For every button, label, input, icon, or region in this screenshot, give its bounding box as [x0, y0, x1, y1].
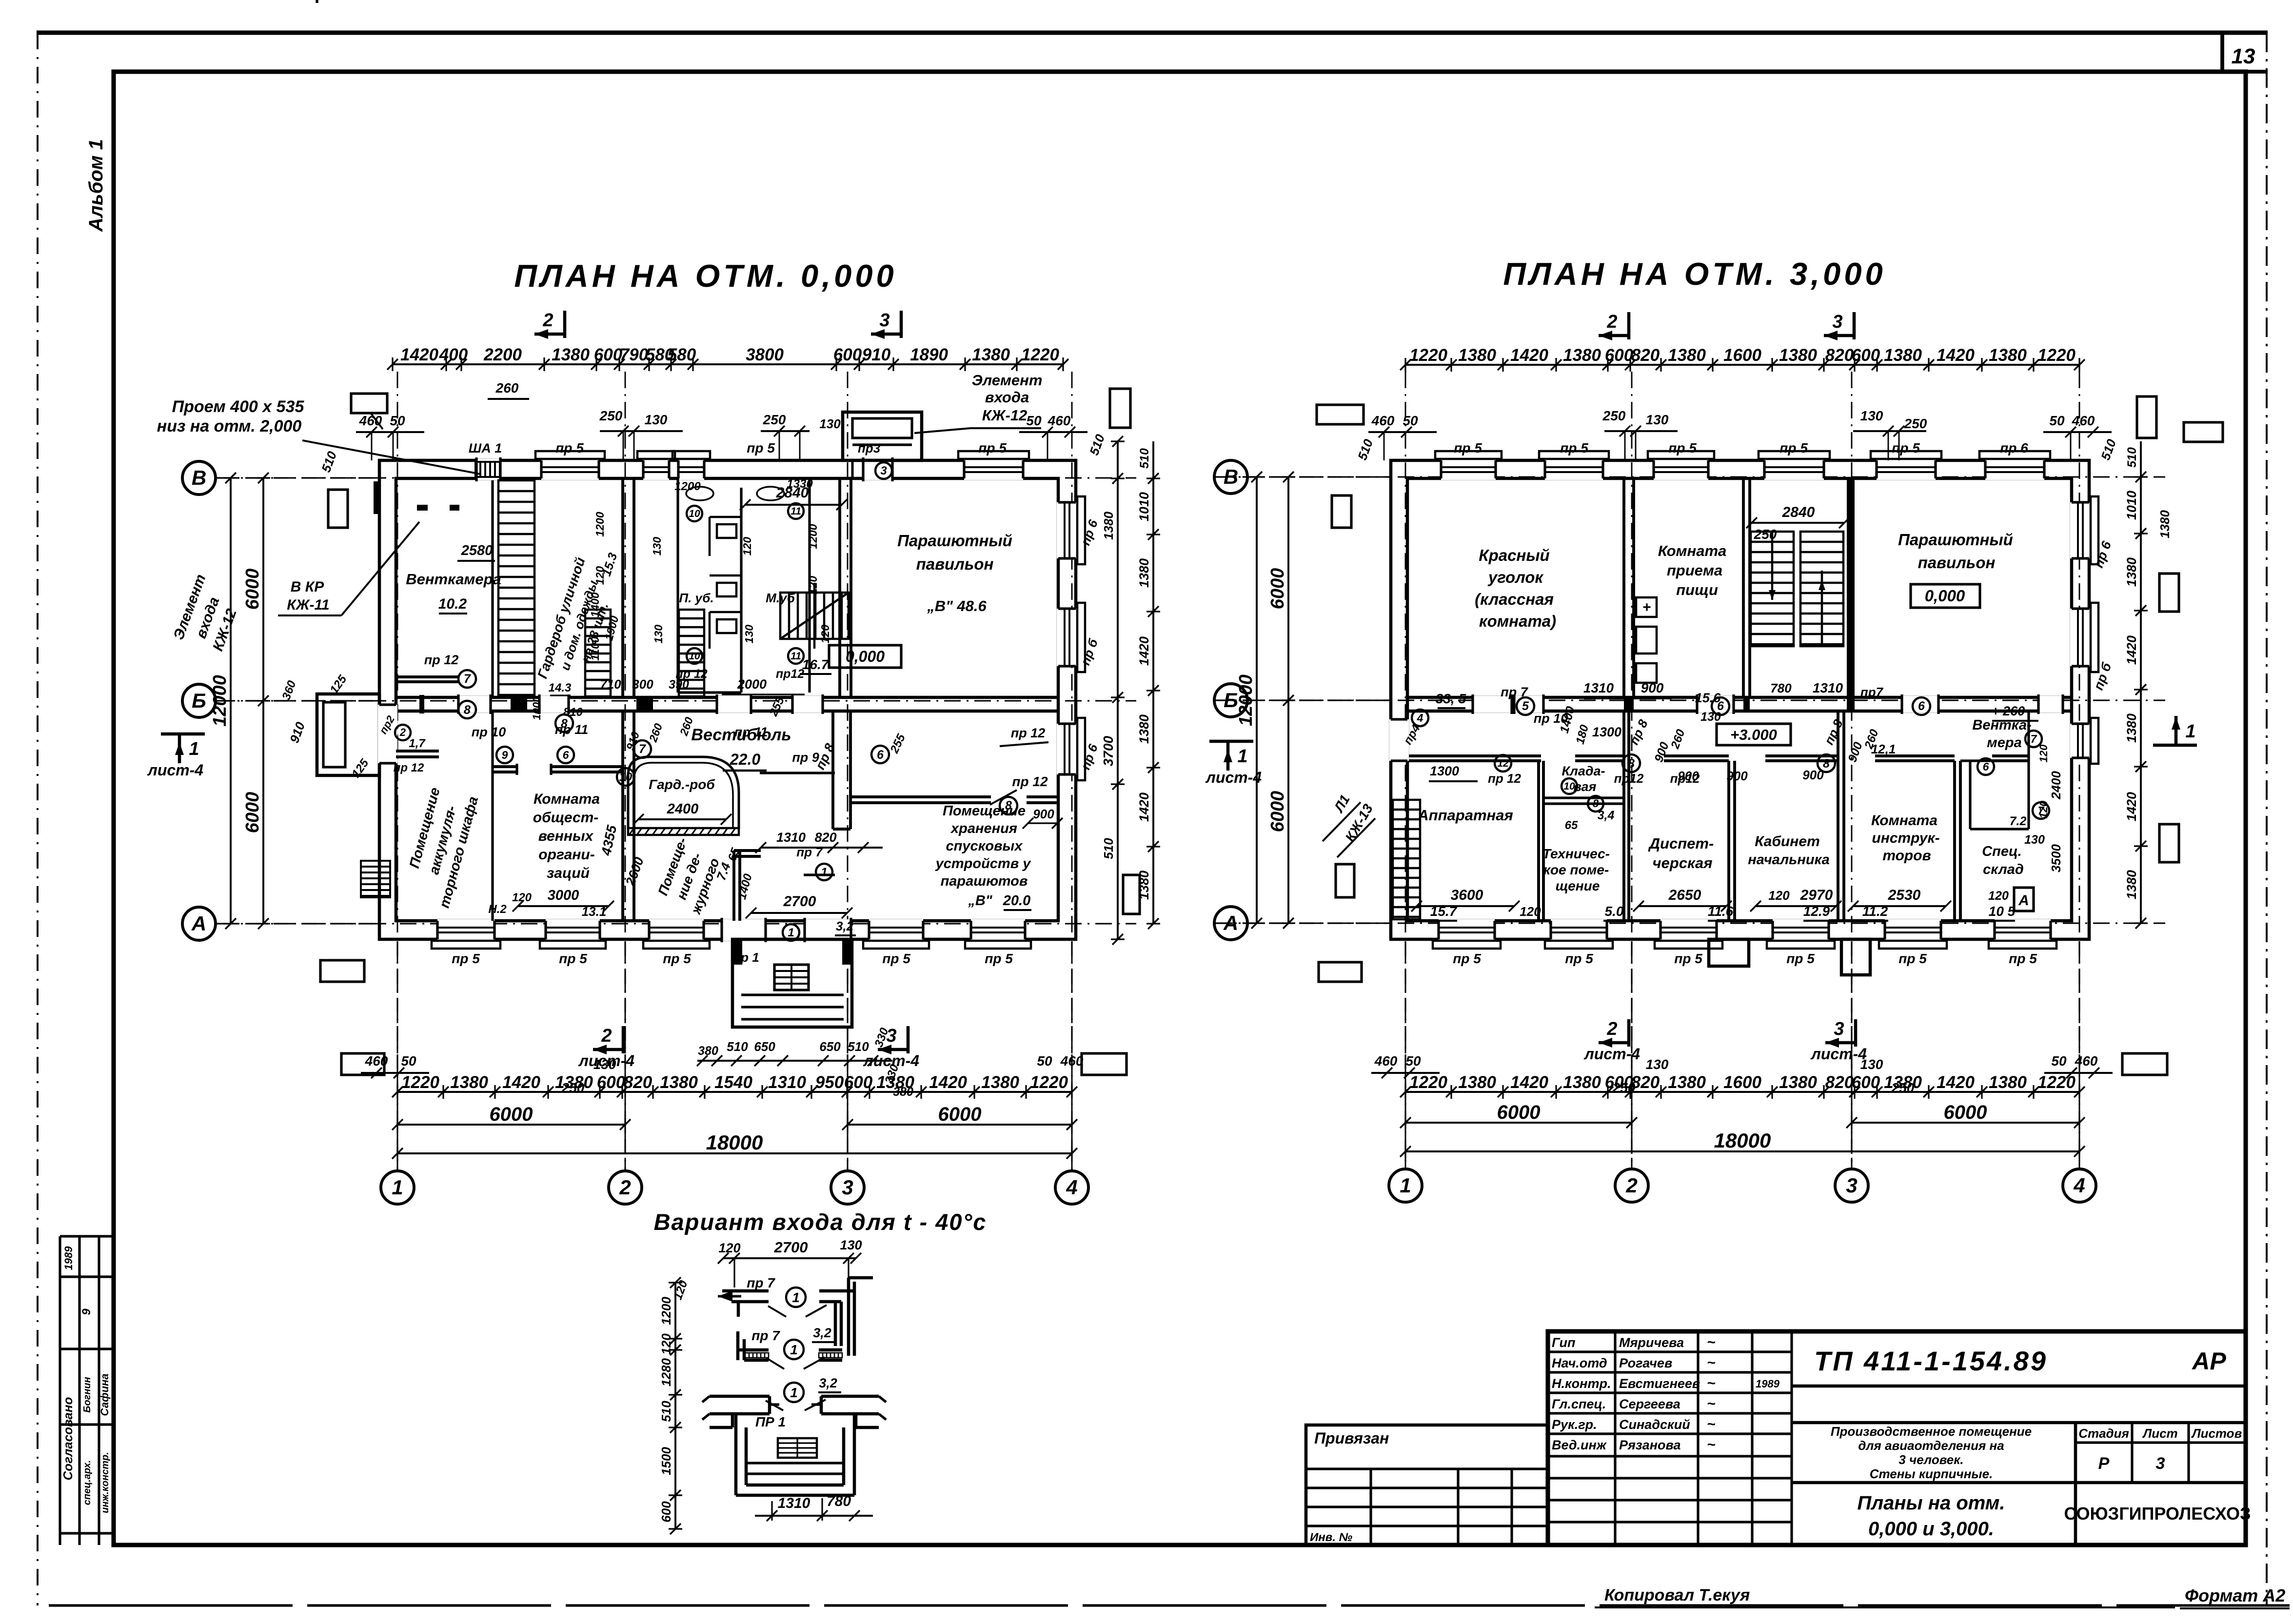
svg-text:1300: 1300	[1592, 725, 1621, 739]
svg-text:650: 650	[754, 1039, 775, 1054]
svg-text:склад: склад	[1983, 862, 2024, 877]
svg-text:кое поме-: кое поме-	[1543, 862, 1609, 877]
vestibule counter Гард.-роб	[628, 757, 739, 829]
svg-text:11.6: 11.6	[1708, 904, 1734, 919]
svg-text:510: 510	[1101, 838, 1116, 859]
+3.000 box	[1717, 724, 1791, 745]
svg-text:1380: 1380	[1989, 1073, 2027, 1092]
auxiliary table Привязан	[1306, 1425, 1548, 1545]
svg-text:КЖ-12: КЖ-12	[982, 407, 1028, 424]
svg-text:Диспет-: Диспет-	[1648, 835, 1714, 852]
detail main wall fragment	[710, 1395, 770, 1398]
entrance mat (black grid)	[774, 965, 809, 990]
svg-text:1420: 1420	[502, 1073, 540, 1092]
svg-text:50: 50	[1405, 1053, 1421, 1069]
svg-text:пр 9: пр 9	[792, 750, 819, 765]
svg-text:3500: 3500	[2049, 844, 2063, 872]
svg-text:комната): комната)	[1479, 612, 1556, 630]
svg-text:1380: 1380	[450, 1073, 488, 1092]
svg-text:пр 12: пр 12	[1488, 771, 1521, 786]
svg-text:1420: 1420	[1137, 792, 1151, 822]
small ladder on left wall	[361, 861, 390, 897]
svg-text:1220: 1220	[1021, 345, 1059, 364]
axis circles (right plan left side)	[1214, 476, 1391, 477]
svg-text:5: 5	[1522, 699, 1529, 713]
small stair to pavilion	[780, 593, 849, 639]
right plan top dimension chain	[1405, 364, 2079, 366]
svg-text:50: 50	[1403, 413, 1418, 428]
sheet outer right border	[2266, 33, 2268, 1605]
svg-text:1220: 1220	[1409, 346, 1447, 365]
svg-text:ПР 1: ПР 1	[755, 1414, 786, 1429]
svg-text:Альбом 1: Альбом 1	[85, 139, 107, 232]
svg-text:пр 7: пр 7	[747, 1275, 775, 1290]
svg-text:250: 250	[1904, 416, 1927, 431]
svg-text:2200: 2200	[483, 345, 522, 364]
svg-text:780: 780	[1770, 681, 1792, 695]
svg-text:600: 600	[659, 1501, 673, 1523]
left plan exterior walls	[379, 460, 1076, 939]
svg-text:1380: 1380	[1563, 1073, 1601, 1092]
right plan top room partitions	[1622, 478, 1625, 697]
sheet bottom thin border	[49, 1604, 2290, 1606]
svg-text:уголок: уголок	[1487, 568, 1544, 586]
svg-text:650: 650	[819, 1039, 841, 1054]
svg-text:18000: 18000	[706, 1131, 763, 1154]
porch mat grid	[778, 1438, 817, 1458]
svg-text:3,2: 3,2	[813, 1326, 831, 1340]
svg-text:1280: 1280	[659, 1358, 673, 1386]
svg-text:6: 6	[563, 749, 569, 761]
svg-text:1100: 1100	[589, 636, 601, 661]
top entrance porch (Элемент входа КЖ-12)	[843, 412, 922, 460]
svg-text:2: 2	[399, 726, 406, 738]
svg-text:130: 130	[1860, 408, 1883, 423]
svg-text:7: 7	[464, 672, 471, 686]
svg-text:1989: 1989	[62, 1246, 75, 1270]
svg-text:1220: 1220	[1409, 1073, 1447, 1092]
svg-text:пр 5: пр 5	[1786, 951, 1815, 966]
left side entrance porch (Элемент входа)	[316, 0, 317, 1]
svg-text:Мяричева: Мяричева	[1619, 1335, 1684, 1350]
svg-text:Вентка-: Вентка-	[1972, 717, 2031, 733]
svg-text:6000: 6000	[1497, 1102, 1541, 1123]
svg-text:1380: 1380	[1779, 1073, 1817, 1092]
svg-text:Р: Р	[2098, 1454, 2110, 1473]
svg-text:Вед.инж: Вед.инж	[1552, 1438, 1607, 1452]
svg-text:пр 7: пр 7	[796, 845, 823, 859]
left plan bottom dims	[397, 1091, 1072, 1093]
элемент ША1 on top wall	[476, 459, 500, 480]
door circles (right plan)	[1517, 697, 1534, 715]
svg-text:Гл.спец.: Гл.спец.	[1552, 1397, 1606, 1411]
mid wall door openings (right plan)	[1473, 696, 1512, 713]
svg-text:1380: 1380	[1458, 346, 1496, 365]
svg-text:А: А	[191, 912, 206, 935]
section marks bottom (left plan)	[622, 1026, 625, 1053]
svg-text:7: 7	[2031, 733, 2037, 745]
svg-text:пр 5: пр 5	[747, 440, 775, 456]
approval stamp table (rotated, bottom-left)	[59, 1236, 61, 1545]
left plan bottom wall windows пр5	[437, 919, 494, 941]
svg-text:1380: 1380	[981, 1073, 1019, 1092]
svg-text:АР: АР	[2191, 1347, 2226, 1375]
svg-text:~: ~	[1707, 1437, 1716, 1453]
WC block	[676, 478, 679, 693]
detail middle wing пр7	[736, 1331, 740, 1360]
svg-text:50: 50	[1037, 1053, 1052, 1069]
svg-text:щение: щение	[1556, 878, 1600, 893]
bottom room partitions (right plan)	[1622, 711, 1625, 921]
svg-text:пр 5: пр 5	[555, 440, 584, 456]
svg-text:1: 1	[792, 1290, 800, 1305]
svg-text:3600: 3600	[1451, 887, 1483, 903]
svg-text:8: 8	[464, 703, 471, 717]
svg-text:600: 600	[844, 1073, 873, 1092]
svg-text:пр 12: пр 12	[394, 761, 424, 774]
kitchen fixtures	[1636, 597, 1657, 617]
svg-text:1420: 1420	[400, 345, 438, 364]
svg-text:пр3: пр3	[858, 441, 881, 456]
svg-text:пр 5: пр 5	[1779, 440, 1808, 456]
svg-text:Планы на отм.: Планы на отм.	[1857, 1492, 2005, 1514]
svg-text:120: 120	[593, 566, 606, 585]
svg-text:2: 2	[601, 1026, 612, 1046]
svg-text:13: 13	[2232, 44, 2255, 68]
svg-text:Нач.отд: Нач.отд	[1552, 1356, 1607, 1370]
svg-text:1200: 1200	[659, 1297, 673, 1325]
svg-text:1420: 1420	[929, 1073, 967, 1092]
svg-text:низ на отм. 2,000: низ на отм. 2,000	[157, 417, 302, 436]
svg-text:250: 250	[1754, 527, 1777, 542]
svg-text:венных: венных	[538, 828, 594, 844]
svg-text:1220: 1220	[401, 1073, 439, 1092]
svg-text:пр 5: пр 5	[559, 951, 587, 966]
svg-text:1420: 1420	[1937, 1073, 1975, 1092]
svg-text:ПЛАН НА ОТМ. 0,000: ПЛАН НА ОТМ. 0,000	[514, 258, 897, 294]
svg-text:Рязанова: Рязанова	[1619, 1438, 1680, 1452]
svg-text:1380: 1380	[1137, 558, 1151, 588]
svg-text:65: 65	[1565, 819, 1578, 832]
пр9 opening in vestibule right zone	[760, 772, 835, 774]
axis grid dash-dot lines (right plan)	[1405, 372, 1406, 1168]
svg-text:820: 820	[1825, 1073, 1854, 1092]
svg-text:16.7: 16.7	[802, 657, 830, 672]
svg-text:общест-: общест-	[533, 810, 599, 826]
svg-text:пр 5: пр 5	[1453, 951, 1481, 966]
right plan axis Б wall	[1407, 696, 2072, 699]
section mark 1 лист-4 (between plans)	[1209, 740, 1253, 743]
svg-text:2400: 2400	[2049, 771, 2063, 800]
svg-text:Парашютный: Парашютный	[897, 532, 1012, 550]
svg-text:органи-: органи-	[538, 847, 594, 863]
svg-text:1310: 1310	[1813, 680, 1843, 695]
svg-text:Н.контр.: Н.контр.	[1552, 1376, 1611, 1391]
svg-text:3: 3	[1834, 1019, 1844, 1039]
svg-text:6000: 6000	[242, 569, 263, 610]
svg-text:120: 120	[807, 576, 819, 595]
svg-text:1380: 1380	[1101, 512, 1116, 540]
svg-text:460: 460	[1371, 413, 1395, 428]
svg-text:1400: 1400	[589, 592, 601, 617]
svg-text:3: 3	[1846, 1174, 1857, 1197]
svg-text:1: 1	[821, 866, 827, 879]
svg-text:130: 130	[1646, 1057, 1669, 1072]
svg-text:14.3: 14.3	[549, 681, 572, 694]
экспликация outside left (ladder Л1)	[1393, 800, 1420, 919]
svg-text:ТП 411-1-154.89: ТП 411-1-154.89	[1814, 1346, 2048, 1376]
svg-text:Производственное помещение: Производственное помещение	[1831, 1424, 2032, 1439]
svg-text:390: 390	[669, 678, 689, 692]
svg-text:Комната: Комната	[1871, 812, 1937, 829]
svg-text:Евстигнеев: Евстигнеев	[1619, 1376, 1700, 1391]
svg-text:10: 10	[1563, 781, 1575, 792]
svg-text:6000: 6000	[1944, 1102, 1987, 1123]
corridor bottom partition (right plan)	[1407, 754, 1541, 757]
svg-text:1200: 1200	[674, 480, 701, 493]
svg-text:1220: 1220	[1030, 1073, 1068, 1092]
svg-text:пр 5: пр 5	[1668, 440, 1697, 456]
svg-text:600: 600	[597, 1073, 626, 1092]
svg-text:2970: 2970	[1800, 887, 1833, 903]
svg-text:ША 1: ША 1	[469, 441, 502, 456]
svg-text:4: 4	[2073, 1174, 2085, 1197]
svg-text:1420: 1420	[1510, 1073, 1548, 1092]
пр12 partition below павильон	[851, 795, 991, 798]
svg-text:1380: 1380	[2124, 557, 2139, 587]
svg-text:250: 250	[599, 408, 623, 423]
svg-text:лист-4: лист-4	[863, 1052, 919, 1069]
svg-text:Спец.: Спец.	[1982, 844, 2022, 859]
svg-text:1500: 1500	[659, 1447, 673, 1475]
svg-text:2400: 2400	[667, 801, 699, 817]
svg-text:1310: 1310	[776, 830, 806, 845]
svg-text:1200: 1200	[593, 512, 606, 536]
svg-text:20.0: 20.0	[1003, 893, 1030, 909]
svg-text:Богнин: Богнин	[82, 1377, 93, 1412]
svg-text:2: 2	[1606, 1019, 1617, 1039]
svg-text:(классная: (классная	[1475, 590, 1554, 608]
svg-text:А: А	[1223, 911, 1238, 934]
svg-text:380: 380	[893, 1085, 913, 1099]
right plan bottom wall windows пр5	[1439, 919, 1495, 941]
svg-text:Копировал Т.екуя: Копировал Т.екуя	[1604, 1586, 1750, 1604]
svg-text:Рук.гр.: Рук.гр.	[1552, 1417, 1597, 1432]
right plan exterior walls	[1391, 460, 2089, 939]
main entrance porch	[732, 939, 852, 1027]
outside small rectangles (right plan)	[1317, 405, 1364, 424]
coat rack symbols	[585, 610, 611, 696]
svg-text:пр 5: пр 5	[1898, 951, 1927, 966]
svg-text:В КР: В КР	[291, 579, 324, 595]
svg-text:810: 810	[563, 706, 583, 719]
svg-text:Комната: Комната	[1658, 542, 1727, 559]
svg-text:6: 6	[1983, 760, 1989, 773]
svg-text:начальника: начальника	[1748, 852, 1830, 868]
svg-text:250: 250	[1602, 408, 1626, 423]
section marks top (right plan)	[1627, 312, 1631, 339]
stairwell/coat racks column	[498, 480, 534, 695]
svg-text:лист-4: лист-4	[147, 761, 203, 779]
svg-text:460: 460	[2072, 413, 2095, 428]
axis2 wall lower	[621, 711, 624, 921]
svg-text:3: 3	[2156, 1454, 2165, 1473]
svg-text:+ 260: + 260	[1992, 704, 2025, 718]
svg-text:Парашютный: Парашютный	[1898, 531, 2013, 549]
svg-text:900: 900	[1033, 807, 1054, 821]
sheet outer top border	[37, 30, 2268, 35]
right plan left-side dims	[1256, 477, 1258, 923]
svg-text:510: 510	[2125, 447, 2139, 468]
svg-text:11: 11	[791, 506, 801, 517]
detail upper wing пр7	[722, 1289, 769, 1293]
svg-text:Красный: Красный	[1479, 546, 1549, 564]
svg-text:8: 8	[1593, 797, 1599, 810]
svg-text:0,000 и 3,000.: 0,000 и 3,000.	[1868, 1518, 1994, 1540]
right plan: right side dims	[2140, 477, 2142, 923]
right plan left wall door opening	[1389, 719, 1409, 761]
axis2 wall upper	[621, 478, 624, 697]
svg-text:КЖ-11: КЖ-11	[287, 597, 329, 613]
svg-text:380: 380	[698, 1044, 718, 1058]
svg-text:пр 5: пр 5	[1565, 951, 1593, 966]
svg-text:заций: заций	[547, 865, 590, 881]
svg-text:130: 130	[1646, 412, 1669, 427]
svg-text:120: 120	[1988, 889, 2009, 903]
Венткамера bottom partition	[396, 675, 458, 678]
svg-text:пр 5: пр 5	[1892, 440, 1920, 456]
svg-text:12.9: 12.9	[1803, 904, 1830, 919]
svg-text:пр 5: пр 5	[452, 951, 480, 966]
svg-text:Кабинет: Кабинет	[1755, 833, 1820, 850]
outside small rectangles (left plan)	[328, 490, 348, 528]
svg-text:1010: 1010	[2124, 491, 2139, 520]
svg-text:460: 460	[1374, 1053, 1398, 1069]
svg-text:10: 10	[689, 651, 700, 662]
section mark 1 лист-4 (left)	[161, 733, 205, 736]
svg-text:пр 5: пр 5	[663, 951, 691, 966]
svg-text:120: 120	[512, 891, 532, 904]
svg-text:710: 710	[600, 677, 621, 692]
right plan top wall windows пр5	[1441, 459, 1496, 480]
svg-text:пр 12: пр 12	[1011, 726, 1046, 740]
svg-text:1380: 1380	[1884, 346, 1922, 365]
svg-text:пр7: пр7	[1860, 685, 1884, 699]
svg-text:3 человек.: 3 человек.	[1898, 1452, 1963, 1467]
svg-text:„В" 48.6: „В" 48.6	[927, 597, 987, 614]
svg-text:Проем 400 х 535: Проем 400 х 535	[172, 397, 305, 416]
svg-text:1420: 1420	[1137, 636, 1151, 666]
svg-text:3: 3	[880, 464, 887, 477]
svg-text:2: 2	[1625, 1174, 1637, 1197]
svg-text:120: 120	[659, 1333, 673, 1355]
svg-text:33, 5: 33, 5	[1436, 691, 1466, 706]
left plan left-side dims	[230, 478, 232, 924]
svg-text:3: 3	[879, 310, 890, 331]
svg-text:1989: 1989	[1756, 1378, 1780, 1390]
svg-text:Н.2: Н.2	[488, 903, 507, 916]
svg-text:250: 250	[1891, 1080, 1915, 1095]
svg-text:пр12: пр12	[1614, 771, 1644, 786]
detail left vertical dim chain	[674, 1283, 676, 1529]
svg-text:лист-4: лист-4	[1205, 769, 1262, 786]
svg-text:~: ~	[1707, 1416, 1716, 1432]
svg-text:1380: 1380	[1668, 1073, 1706, 1092]
svg-text:260: 260	[495, 380, 519, 396]
svg-text:10 5: 10 5	[1989, 904, 2016, 919]
svg-text:4: 4	[1417, 712, 1423, 724]
entrance tambour walls	[732, 851, 735, 921]
вент shaft black bar	[374, 481, 380, 514]
svg-text:130: 130	[651, 537, 663, 556]
black junction squares (right)	[1624, 697, 1634, 711]
svg-text:В: В	[1224, 465, 1238, 488]
svg-text:300: 300	[632, 677, 653, 692]
svg-text:1300: 1300	[1430, 764, 1459, 778]
svg-text:3: 3	[842, 1176, 853, 1199]
svg-text:7.2: 7.2	[2010, 814, 2027, 828]
svg-text:павильон: павильон	[916, 555, 994, 573]
svg-text:пр 5: пр 5	[882, 951, 910, 966]
svg-text:Согласовано: Согласовано	[60, 1397, 75, 1480]
svg-text:3,2: 3,2	[836, 919, 854, 933]
svg-text:250: 250	[763, 412, 786, 427]
svg-text:120: 120	[718, 1241, 740, 1255]
svg-text:3: 3	[886, 1026, 896, 1046]
svg-text:парашютов: парашютов	[941, 873, 1028, 889]
right wall windows (right plan) пр6	[2070, 502, 2091, 558]
svg-text:2530: 2530	[1888, 887, 1921, 903]
svg-text:хранения: хранения	[950, 821, 1017, 836]
svg-text:120: 120	[2037, 744, 2050, 762]
svg-text:400: 400	[439, 345, 468, 364]
svg-text:2000: 2000	[737, 677, 767, 692]
vestibule right wall / павильон left wall	[838, 478, 841, 697]
svg-text:+: +	[1642, 599, 1651, 615]
svg-text:130: 130	[652, 625, 665, 644]
svg-text:6000: 6000	[1267, 791, 1288, 832]
svg-text:2650: 2650	[1668, 887, 1701, 903]
павильон left wall (dark)	[1847, 478, 1855, 697]
svg-text:Сафина: Сафина	[99, 1373, 111, 1416]
svg-text:Рогачев: Рогачев	[1619, 1356, 1672, 1370]
svg-text:1310: 1310	[778, 1495, 810, 1511]
svg-text:Б: Б	[192, 689, 206, 712]
svg-text:пр 12: пр 12	[1012, 774, 1048, 789]
svg-text:130: 130	[1700, 710, 1721, 724]
svg-text:8: 8	[1628, 757, 1635, 771]
sheet outer left dash-dot border	[37, 33, 39, 1605]
svg-text:120: 120	[1520, 904, 1541, 919]
svg-text:СОЮЗГИПРОЛЕСХОЗ: СОЮЗГИПРОЛЕСХОЗ	[2064, 1504, 2251, 1524]
svg-text:Формат А2: Формат А2	[2185, 1585, 2285, 1605]
svg-text:50: 50	[390, 413, 405, 428]
svg-text:1: 1	[1400, 1174, 1411, 1197]
svg-text:1220: 1220	[2037, 1073, 2076, 1092]
svg-text:1380: 1380	[1668, 346, 1706, 365]
svg-text:Б: Б	[1224, 689, 1238, 712]
svg-text:510: 510	[659, 1401, 673, 1422]
svg-text:„В": „В"	[968, 893, 992, 909]
svg-text:820: 820	[814, 830, 836, 845]
svg-text:2: 2	[1606, 312, 1617, 332]
svg-text:1380: 1380	[552, 345, 590, 364]
svg-text:6000: 6000	[938, 1104, 982, 1125]
svg-text:600: 600	[833, 345, 862, 364]
svg-text:510: 510	[1138, 448, 1151, 469]
svg-text:1600: 1600	[1723, 346, 1761, 365]
svg-text:130: 130	[645, 412, 668, 427]
